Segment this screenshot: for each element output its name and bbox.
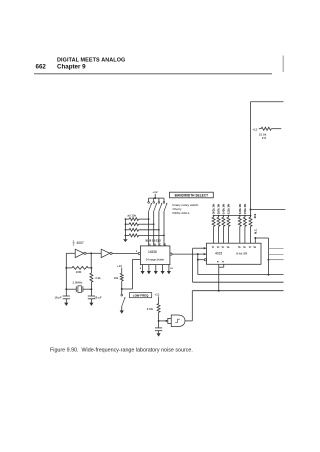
svg-text:Q6: Q6	[243, 247, 246, 249]
svg-text:10k: 10k	[114, 276, 119, 280]
svg-text:14: 14	[170, 267, 173, 270]
svg-text:130k 1%: 130k 1%	[238, 203, 242, 214]
svg-text:154k 1%: 154k 1%	[243, 203, 247, 214]
svg-text:N.C.: N.C.	[254, 228, 258, 234]
svg-text:2.0MHz: 2.0MHz	[73, 281, 84, 285]
svg-text:10M: 10M	[76, 270, 82, 274]
svg-text:4015: 4015	[215, 251, 222, 255]
svg-text:1%: 1%	[262, 136, 267, 140]
svg-text:18 pF: 18 pF	[94, 295, 102, 299]
svg-text:+12: +12	[117, 264, 122, 268]
svg-text:8: 8	[140, 268, 142, 270]
svg-text:143k 1%: 143k 1%	[222, 203, 226, 214]
svg-text:all 10k: all 10k	[127, 214, 136, 218]
svg-text:4007: 4007	[76, 241, 83, 245]
svg-text:Q8: Q8	[254, 247, 257, 249]
svg-text:3: 3	[73, 245, 75, 247]
svg-text:Q5: Q5	[238, 247, 241, 249]
svg-text:18 pF: 18 pF	[54, 295, 62, 299]
svg-text:20k: 20k	[253, 213, 257, 218]
svg-text:+12: +12	[252, 127, 257, 131]
svg-text:Figure 9.90. Wide-frequency-r: Figure 9.90. Wide-frequency-range labora…	[50, 347, 193, 353]
svg-text:Q3: Q3	[222, 247, 225, 249]
svg-text:Q1: Q1	[212, 247, 215, 249]
svg-text:+12: +12	[152, 190, 157, 194]
svg-text:3: 3	[136, 251, 138, 253]
svg-text:Q2: Q2	[217, 247, 220, 249]
svg-text:187k 1%: 187k 1%	[217, 203, 221, 214]
svg-text:Q4: Q4	[227, 246, 230, 249]
svg-text:301k 1%: 301k 1%	[212, 203, 216, 214]
svg-text:+12: +12	[154, 293, 159, 297]
svg-text:662: 662	[36, 64, 47, 71]
svg-text:LOW FREQ: LOW FREQ	[133, 294, 149, 298]
svg-text:Q7: Q7	[249, 247, 252, 249]
svg-text:Chapter 9: Chapter 9	[57, 64, 86, 71]
svg-text:24-stage divider: 24-stage divider	[146, 257, 165, 261]
svg-text:470k: 470k	[147, 307, 154, 311]
svg-text:3.3k: 3.3k	[95, 276, 101, 280]
svg-text:8-bit SR: 8-bit SR	[236, 251, 248, 255]
svg-text:14536: 14536	[148, 250, 157, 254]
svg-text:R: R	[222, 262, 224, 264]
svg-text:BANDWIDTH SELECT: BANDWIDTH SELECT	[175, 194, 208, 198]
svg-text:R: R	[217, 262, 219, 264]
svg-text:R16A–02A-1: R16A–02A-1	[173, 211, 191, 215]
svg-text:121k 1%: 121k 1%	[227, 203, 231, 214]
